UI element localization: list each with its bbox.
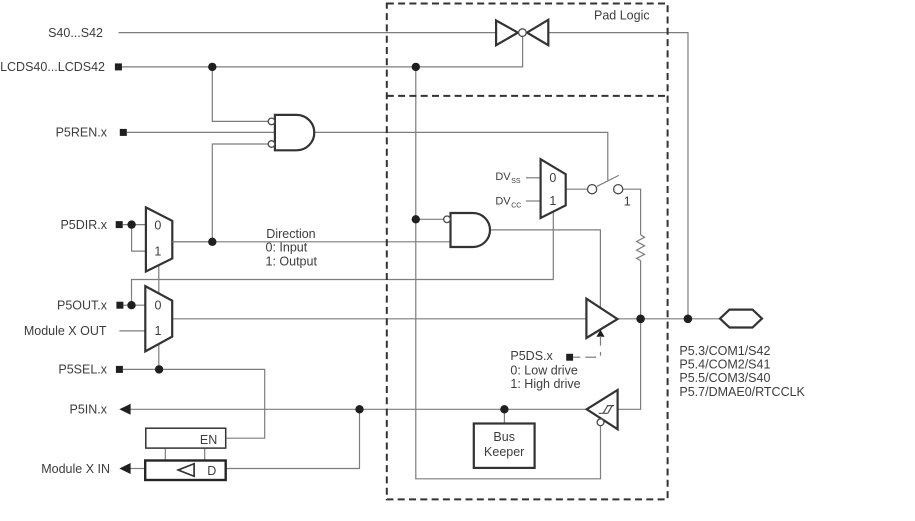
svg-text:P5.7/DMAE0/RTCCLK: P5.7/DMAE0/RTCCLK [679, 385, 805, 399]
input buffer U7 (Schmitt trigger) [587, 390, 618, 429]
svg-text:P5.3/COM1/S42: P5.3/COM1/S42 [679, 344, 770, 358]
wire data line to output driver [172, 318, 586, 320]
and-gate U4 (direction NAND, inverted top input) [444, 213, 490, 247]
svg-text:0: Input: 0: Input [266, 241, 308, 255]
svg-text:P5.4/COM2/S41: P5.4/COM2/S41 [679, 358, 770, 372]
svg-text:0: Low drive: 0: Low drive [510, 363, 577, 377]
latch D box [145, 461, 226, 481]
label DVss [495, 171, 521, 185]
wire Module X IN [130, 468, 146, 470]
wire Module X OUT input [119, 330, 145, 332]
svg-text:P5DS.x: P5DS.x [510, 349, 553, 363]
terminal P5SEL.x [116, 366, 123, 373]
wire P5DIR.x input [123, 224, 146, 226]
wire mux output to switch [566, 188, 588, 190]
wire P5SEL.x [123, 369, 265, 438]
wire P5REN.x input [127, 131, 276, 133]
wire DVcc stub [526, 200, 541, 202]
node on LCDS at pad logic branch [412, 63, 420, 71]
node P5OUT input [127, 301, 135, 309]
wire direction line [172, 241, 450, 243]
node P5IN D latch branch [355, 405, 363, 413]
node on NAND top input [412, 215, 420, 223]
svg-text:Pad Logic: Pad Logic [594, 8, 650, 22]
label DVcc [495, 195, 521, 209]
wire S40 line [119, 32, 497, 34]
svg-text:S40...S42: S40...S42 [48, 26, 103, 40]
and-gate U1 (P5REN gate, inverted top/bottom inputs) [268, 115, 314, 150]
mux U5 (DVss/DVcc pullup select mux) [541, 159, 566, 218]
terminal P5DIR.x [116, 221, 123, 228]
svg-text:Direction: Direction [266, 227, 315, 241]
terminal P5OUT.x [116, 302, 123, 309]
wire D latch input [226, 409, 360, 468]
terminal P5REN.x [120, 129, 127, 136]
svg-text:Bus: Bus [493, 430, 515, 444]
svg-text:DV: DV [495, 195, 511, 207]
svg-text:CC: CC [511, 202, 521, 209]
node on direction line [208, 238, 216, 246]
wire LCDS horizontal [122, 36, 523, 67]
Pad Logic dashed border [387, 4, 668, 500]
svg-text:Module X IN: Module X IN [41, 462, 110, 476]
terminal P5DS.x [566, 354, 573, 361]
svg-text:P5OUT.x: P5OUT.x [57, 299, 108, 313]
wire pad line [618, 318, 721, 320]
svg-text:P5.5/COM3/S40: P5.5/COM3/S40 [679, 371, 770, 385]
node on LCDS at REN branch [208, 63, 216, 71]
svg-text:Keeper: Keeper [484, 445, 524, 459]
wire P5DIR.x to mux input 1 [132, 225, 146, 252]
svg-text:P5SEL.x: P5SEL.x [58, 363, 107, 377]
switch SW1 (REN controlled) [588, 175, 623, 193]
wire LCDS to REN gate top input [212, 67, 268, 122]
svg-text:Module X OUT: Module X OUT [24, 324, 107, 338]
node pad line resistor [636, 315, 645, 324]
wire bus keeper stub [503, 409, 505, 423]
analog switch S40 (back-to-back triangles) [496, 20, 548, 45]
wire P5OUT.x input [123, 304, 145, 306]
pad P5.x (hexagon) [720, 310, 762, 328]
svg-text:SS: SS [511, 178, 521, 185]
wire pad to input buffer [618, 319, 641, 410]
wire resistor to pad line [640, 261, 642, 319]
mux U2 (P5DIR direction mux) [146, 207, 172, 271]
wire REN gate output to switch blade [314, 132, 608, 180]
svg-text:P5DIR.x: P5DIR.x [60, 218, 107, 232]
svg-text:1: High drive: 1: High drive [510, 377, 580, 391]
wire analog switch output to pad [548, 33, 688, 319]
wire NAND output to driver enable [490, 230, 600, 308]
node P5IN bus keeper branch [500, 405, 508, 413]
wire EN-D stub right [204, 448, 206, 460]
svg-text:P5IN.x: P5IN.x [69, 403, 107, 417]
arrow Module X IN [119, 463, 130, 474]
arrow P5IN.x [119, 404, 130, 415]
label Direction block [266, 227, 318, 269]
svg-text:P5REN.x: P5REN.x [56, 126, 108, 140]
wire NAND top input stub [416, 218, 444, 220]
resistor [637, 235, 645, 261]
latch EN box [146, 428, 226, 448]
terminal LCDS40...LCDS42 [115, 63, 122, 70]
svg-text:LCDS40...LCDS42: LCDS40...LCDS42 [0, 60, 105, 74]
wire NAND top input from LCDS vertical [416, 67, 601, 479]
svg-text:D: D [207, 464, 216, 478]
mux U3 (P5OUT output mux) [145, 286, 172, 351]
svg-text:0: 0 [155, 299, 162, 313]
label pin names [679, 344, 805, 399]
svg-text:1: Output: 1: Output [266, 254, 318, 268]
svg-text:0: 0 [154, 218, 161, 232]
wire EN-D stub left [164, 448, 166, 460]
svg-text:DV: DV [495, 171, 511, 183]
wire switch to resistor [623, 189, 641, 235]
node P5SEL select [155, 365, 163, 373]
svg-text:1: 1 [155, 324, 162, 338]
wire DIR mux output [172, 241, 212, 243]
svg-text:1: 1 [154, 244, 161, 258]
bus keeper B1 [474, 424, 535, 468]
label P5DS.x block [510, 349, 580, 391]
output driver U6 [586, 299, 617, 338]
P5DS drive strength arrow [573, 330, 604, 357]
svg-text:1: 1 [624, 194, 631, 208]
wire direction to REN gate bottom input [212, 144, 268, 242]
dashed divider [387, 95, 668, 97]
wire mux select vertical P5SEL [158, 264, 160, 369]
wire P5OUT.x to resistor mux select [132, 211, 554, 305]
wire DVss stub [526, 177, 541, 179]
node pad line S40 branch [684, 315, 693, 324]
node P5DIR input [127, 220, 135, 228]
svg-text:EN: EN [200, 433, 217, 447]
svg-text:1: 1 [549, 194, 556, 208]
wire P5IN line [130, 408, 587, 410]
svg-text:0: 0 [549, 171, 556, 185]
